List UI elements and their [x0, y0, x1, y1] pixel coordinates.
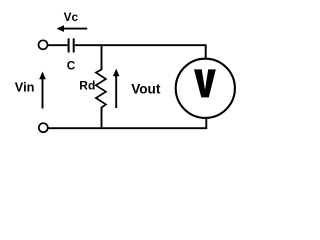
terminal input bottom: [39, 123, 48, 132]
terminal input top: [39, 40, 48, 49]
Vin arrow (points up): [39, 72, 46, 109]
wire bottom of Rd: [101, 107, 103, 128]
svg-text:Rd: Rd: [79, 79, 95, 93]
voltmeter U1 body: [176, 59, 235, 118]
svg-text:Vout: Vout: [131, 82, 161, 97]
svg-text:Vc: Vc: [64, 10, 79, 24]
svg-text:C: C: [67, 58, 76, 72]
node junction wire at top of Rd: [101, 44, 103, 70]
capacitor C1 plate left: [68, 38, 70, 52]
resistor Rd zigzag: [96, 70, 106, 108]
Vc arrow (points left): [57, 25, 88, 32]
capacitor C1 plate right: [73, 38, 75, 52]
voltmeter V glyph: [194, 69, 216, 97]
Vout arrow (points up): [113, 69, 120, 108]
wire bottom: terminal to voltmeter: [48, 119, 206, 129]
wire top: terminal to capacitor: [47, 44, 67, 46]
wire top: capacitor to voltmeter corner: [75, 45, 206, 58]
svg-text:Vin: Vin: [15, 80, 35, 95]
